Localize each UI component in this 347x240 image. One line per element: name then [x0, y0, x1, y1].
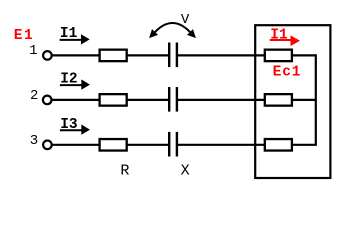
wire X2 to box	[178, 99, 265, 101]
voltage arc V over X1	[155, 23, 190, 32]
wire terminal1 to R1	[52, 54, 100, 56]
label I3 with arrow	[60, 117, 90, 135]
load resistor branch3	[265, 139, 292, 151]
wire X3 to box	[178, 144, 265, 146]
capacitor X branch3	[169, 132, 177, 157]
wire R3 to X3	[127, 144, 169, 146]
wire load R2 to bus	[292, 99, 316, 101]
resistor R branch2	[100, 94, 127, 106]
terminal 1	[43, 51, 52, 60]
label I1 (red, load current) with arrow	[270, 28, 300, 47]
wire terminal3 to R3	[52, 144, 100, 146]
svg-text:V: V	[181, 12, 190, 28]
resistor R branch1	[100, 50, 127, 62]
wire X1 to box	[178, 54, 265, 56]
terminal 2	[43, 96, 52, 105]
wire R1 to X1	[127, 54, 169, 56]
resistor R branch3	[100, 139, 127, 151]
label I2 with arrow	[60, 72, 90, 90]
svg-text:I1: I1	[270, 28, 288, 44]
svg-text:X: X	[181, 162, 190, 179]
wire load R3 to bus	[292, 144, 316, 146]
svg-text:R: R	[120, 162, 129, 179]
capacitor X branch2	[169, 87, 177, 112]
svg-text:Ec1: Ec1	[273, 65, 302, 81]
wire terminal2 to R2	[52, 99, 101, 101]
load resistor branch1	[265, 50, 292, 62]
svg-text:E1: E1	[14, 28, 34, 44]
load box Ec1 outline	[255, 25, 330, 178]
svg-text:1: 1	[29, 43, 37, 59]
svg-text:3: 3	[30, 133, 38, 149]
terminal 3	[43, 141, 52, 150]
wire load R1 to bus	[292, 54, 316, 56]
load resistor branch2	[265, 94, 292, 106]
capacitor X branch1	[169, 43, 177, 68]
wire R2 to X2	[127, 99, 169, 101]
neutral bus	[315, 54, 317, 146]
label I1 with arrow	[60, 26, 90, 44]
svg-text:2: 2	[30, 88, 38, 104]
